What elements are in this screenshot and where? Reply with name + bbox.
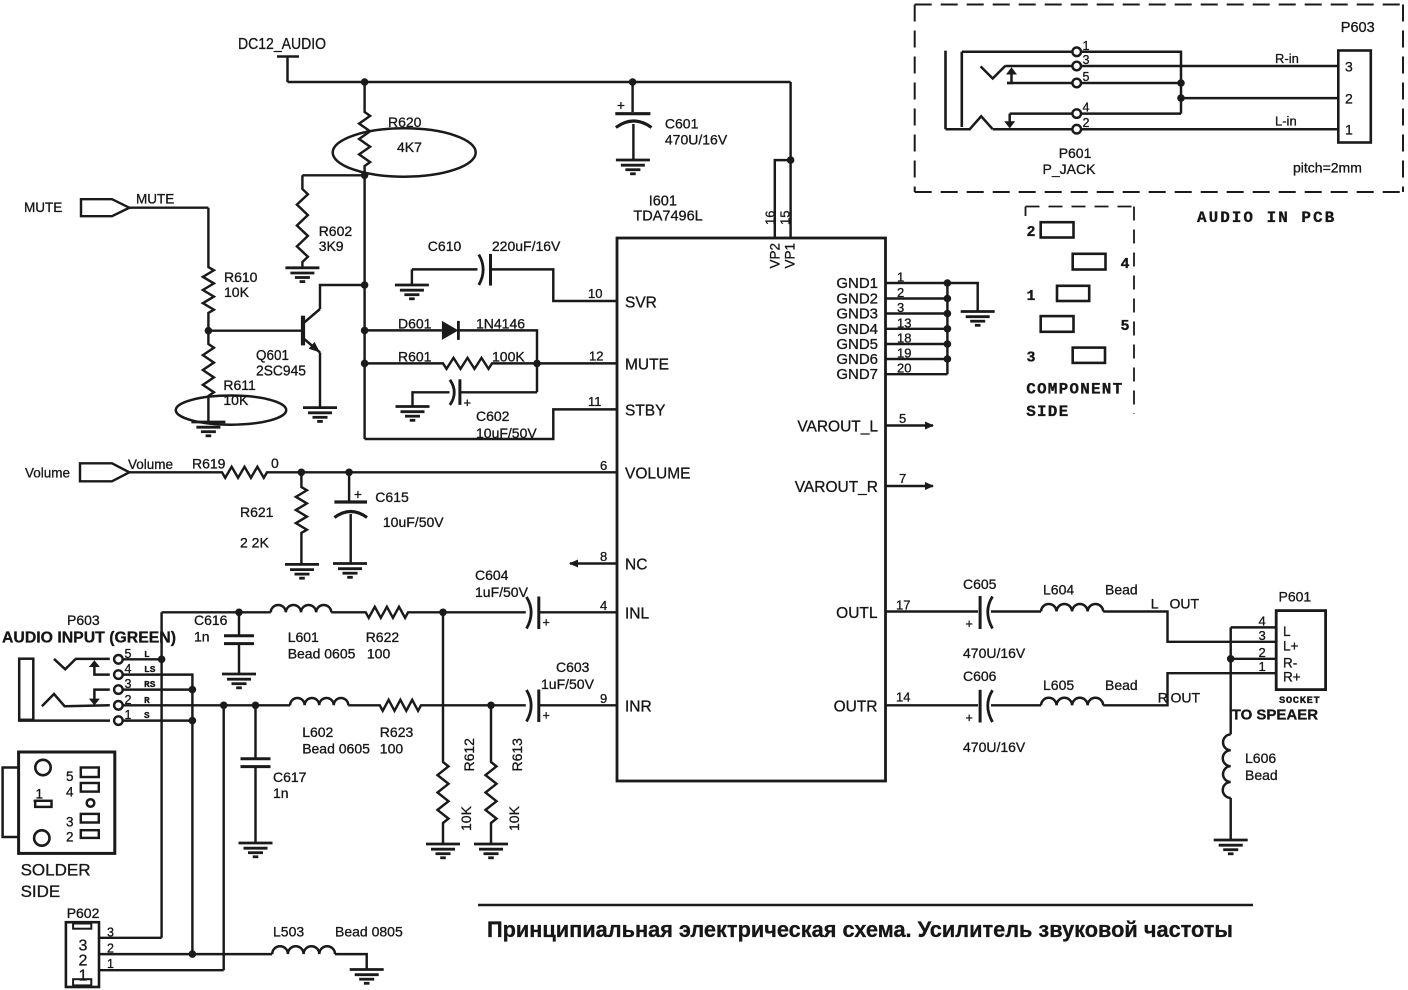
junction mute node bbox=[533, 360, 541, 368]
junction GND bus bbox=[944, 325, 952, 333]
svg-text:VP1: VP1 bbox=[783, 243, 798, 269]
wire socket pin 4 bbox=[1231, 626, 1277, 628]
svg-text:NC: NC bbox=[625, 557, 647, 574]
wire S from pin1 bbox=[123, 719, 193, 721]
wire VAROUT_R arrow bbox=[886, 482, 935, 490]
capacitor C606 bbox=[980, 690, 992, 723]
svg-text:R+: R+ bbox=[1283, 670, 1301, 685]
ground C601 bbox=[616, 160, 650, 174]
inductor L606 bbox=[1223, 734, 1231, 798]
junction GND bus bbox=[944, 355, 952, 363]
svg-text:10K: 10K bbox=[506, 805, 522, 831]
svg-text:R-in: R-in bbox=[1275, 51, 1299, 66]
junction D601 row bbox=[361, 327, 369, 335]
wire L601 gap bbox=[239, 611, 271, 613]
wire C610 left bbox=[412, 268, 478, 270]
junction R610/R611/base bbox=[205, 327, 213, 335]
wire GND4 stub bbox=[886, 328, 948, 330]
svg-text:pitch=2mm: pitch=2mm bbox=[1293, 160, 1362, 176]
ground L503 bbox=[350, 970, 384, 984]
solder-side left tab bbox=[3, 768, 19, 838]
svg-text:1uF/50V: 1uF/50V bbox=[475, 584, 529, 600]
svg-text:MUTE: MUTE bbox=[136, 192, 174, 207]
svg-text:Bead 0805: Bead 0805 bbox=[335, 924, 403, 940]
svg-text:C610: C610 bbox=[428, 238, 462, 254]
svg-text:9: 9 bbox=[600, 691, 607, 706]
P602 key bottom bbox=[73, 979, 91, 985]
inductor L605 bbox=[1041, 698, 1103, 706]
wire C605 to L604 bbox=[991, 610, 1041, 612]
ground C602 bbox=[396, 407, 430, 421]
svg-text:16: 16 bbox=[763, 211, 778, 225]
svg-text:3: 3 bbox=[66, 815, 74, 830]
svg-text:4: 4 bbox=[66, 785, 74, 800]
resistor R610 bbox=[203, 208, 214, 331]
junction speaker bus bbox=[1227, 655, 1235, 663]
svg-text:R: R bbox=[1158, 690, 1168, 706]
junction GND bus bbox=[944, 340, 952, 348]
wire INL row start bbox=[162, 611, 239, 613]
svg-text:R-: R- bbox=[1283, 655, 1297, 670]
wire P602 pin 3 bbox=[99, 937, 162, 939]
ground C610 bbox=[395, 285, 429, 299]
junction C617 bbox=[252, 702, 260, 710]
svg-text:+: + bbox=[464, 395, 472, 410]
svg-text:AUDIO INPUT (GREEN): AUDIO INPUT (GREEN) bbox=[2, 630, 176, 647]
wire mute-net vertical bbox=[363, 175, 365, 439]
svg-text:10K: 10K bbox=[224, 284, 250, 300]
wire to C604 bbox=[443, 611, 526, 613]
svg-text:VAROUT_L: VAROUT_L bbox=[797, 419, 878, 436]
ground Q601 emitter bbox=[303, 408, 337, 422]
svg-text:1n: 1n bbox=[273, 785, 289, 801]
junction P602 pin2/ground net bbox=[189, 950, 197, 958]
wire OUTR to C606 bbox=[886, 704, 979, 706]
svg-text:6: 6 bbox=[600, 458, 607, 473]
svg-text:I601: I601 bbox=[649, 194, 677, 210]
ground C616 bbox=[222, 674, 256, 688]
junction pin5/vertical bbox=[1177, 79, 1185, 87]
svg-text:Принципиальная электрическая с: Принципиальная электрическая схема. Усил… bbox=[487, 917, 1233, 942]
pin 5 circle (P603 input) bbox=[114, 655, 123, 664]
svg-text:100: 100 bbox=[367, 646, 391, 662]
svg-text:P602: P602 bbox=[67, 905, 100, 921]
svg-text:2: 2 bbox=[1345, 91, 1353, 107]
svg-text:1N4146: 1N4146 bbox=[476, 316, 525, 332]
svg-text:+: + bbox=[543, 616, 550, 630]
jack contact R bbox=[42, 694, 110, 706]
svg-text:R623: R623 bbox=[380, 724, 414, 740]
solder-side connector outline bbox=[19, 752, 115, 853]
svg-text:14: 14 bbox=[896, 690, 910, 705]
svg-text:5: 5 bbox=[66, 769, 74, 784]
svg-text:220uF/16V: 220uF/16V bbox=[492, 238, 561, 254]
wire jack sleeve S bbox=[19, 719, 110, 722]
svg-text:TO SPEAER: TO SPEAER bbox=[1232, 707, 1319, 724]
svg-text:10K: 10K bbox=[223, 392, 249, 408]
junction R613 bbox=[487, 702, 495, 710]
jack switch arrow down (pin4) bbox=[1004, 114, 1015, 129]
wire VAROUT_L arrow bbox=[886, 422, 935, 430]
junction P603 pin2 row bbox=[1177, 94, 1185, 102]
transistor Q601 bbox=[303, 309, 320, 352]
highlight ellipse around R611 value bbox=[176, 396, 286, 425]
P602 key top bbox=[73, 924, 91, 929]
junction rail/R620 bbox=[361, 78, 369, 86]
svg-text:2: 2 bbox=[1027, 224, 1036, 241]
svg-text:100: 100 bbox=[380, 741, 404, 757]
svg-text:4: 4 bbox=[600, 598, 607, 613]
svg-text:L: L bbox=[1283, 624, 1291, 639]
wire R602 top bbox=[302, 174, 364, 176]
wire OUTL to C605 bbox=[886, 610, 979, 612]
svg-text:11: 11 bbox=[588, 394, 602, 409]
wire jack pin1 row bbox=[962, 52, 1181, 114]
junction L bbox=[158, 656, 166, 664]
svg-text:4K7: 4K7 bbox=[397, 139, 422, 155]
wire base bbox=[208, 329, 301, 331]
svg-text:R622: R622 bbox=[366, 629, 400, 645]
capacitor C605 bbox=[980, 596, 992, 629]
svg-text:P603: P603 bbox=[67, 612, 100, 628]
svg-text:2: 2 bbox=[1083, 116, 1090, 130]
wire +12V rail bbox=[288, 81, 791, 83]
inductor L604 bbox=[1041, 604, 1103, 612]
wire jack pin4 row bbox=[1010, 112, 1181, 115]
svg-text:COMPONENT: COMPONENT bbox=[1026, 381, 1123, 399]
svg-text:R610: R610 bbox=[224, 269, 258, 285]
connector P601 speaker socket bbox=[1276, 611, 1325, 690]
svg-text:INL: INL bbox=[625, 606, 650, 623]
wire collector bbox=[320, 285, 365, 309]
junction GND bus bbox=[944, 279, 952, 287]
svg-text:+: + bbox=[966, 711, 973, 725]
junction S/ground bbox=[189, 717, 197, 725]
wire to C603 bbox=[491, 704, 526, 706]
connector P603 (audio-in pcb) bbox=[1338, 51, 1371, 143]
svg-text:C604: C604 bbox=[475, 567, 509, 583]
svg-text:SOLDER: SOLDER bbox=[21, 861, 91, 880]
svg-text:3: 3 bbox=[1259, 628, 1266, 643]
capacitor C616 bbox=[224, 612, 254, 674]
svg-text:Bead: Bead bbox=[1105, 582, 1138, 598]
ground R612 bbox=[426, 844, 460, 858]
dashed border AUDIO IN PCB bbox=[915, 5, 1403, 193]
svg-text:1: 1 bbox=[36, 787, 44, 802]
wire L606 to ground bbox=[1229, 798, 1231, 840]
svg-text:Q601: Q601 bbox=[256, 348, 289, 364]
svg-text:3: 3 bbox=[1027, 350, 1036, 367]
svg-text:4: 4 bbox=[1083, 101, 1090, 115]
svg-text:1: 1 bbox=[1027, 288, 1036, 305]
svg-text:1n: 1n bbox=[194, 629, 210, 645]
svg-text:P603: P603 bbox=[1341, 20, 1375, 36]
wire P602 pin 2 bbox=[99, 953, 272, 955]
wire INR pin 9 bbox=[539, 704, 617, 706]
svg-text:VOLUME: VOLUME bbox=[625, 466, 690, 483]
title underline bbox=[478, 904, 1253, 906]
wire L from pin5 bbox=[123, 658, 162, 660]
wire L OUT to socket pin 3 bbox=[1103, 612, 1276, 642]
svg-text:L: L bbox=[1151, 596, 1159, 612]
svg-text:10uF/50V: 10uF/50V bbox=[383, 514, 444, 530]
svg-text:OUTR: OUTR bbox=[834, 699, 878, 716]
svg-text:3: 3 bbox=[1083, 53, 1090, 67]
junction GND bus bbox=[944, 295, 952, 303]
svg-text:1: 1 bbox=[1259, 659, 1266, 674]
capacitor C603 bbox=[527, 690, 539, 723]
capacitor C601 bbox=[615, 82, 651, 160]
svg-text:C601: C601 bbox=[665, 116, 699, 132]
svg-text:R612: R612 bbox=[461, 738, 477, 772]
pad 1 underline bbox=[34, 800, 46, 802]
wire INR row start bbox=[123, 704, 290, 706]
svg-text:MUTE: MUTE bbox=[625, 357, 669, 374]
jack contact check (R-in) bbox=[981, 66, 1006, 79]
svg-text:10: 10 bbox=[588, 286, 602, 301]
wire GND1 stub bbox=[886, 282, 948, 284]
svg-text:P_JACK: P_JACK bbox=[1043, 161, 1097, 177]
junction R net bbox=[220, 702, 228, 710]
pin 3 circle (P603 input) bbox=[114, 685, 123, 694]
svg-text:C605: C605 bbox=[963, 576, 997, 592]
svg-text:7: 7 bbox=[899, 471, 906, 486]
svg-text:Volume: Volume bbox=[128, 457, 173, 472]
resistor R623 bbox=[348, 700, 491, 711]
junction rail/C601 bbox=[629, 78, 637, 86]
junction R612 bbox=[439, 609, 447, 617]
ground C615 bbox=[333, 564, 367, 578]
capacitor C604 bbox=[527, 597, 539, 630]
junction R621 bbox=[298, 469, 306, 477]
pad 5 rect bbox=[81, 768, 99, 778]
svg-text:+: + bbox=[617, 98, 625, 113]
svg-text:OUT: OUT bbox=[1170, 596, 1200, 612]
svg-text:P601: P601 bbox=[1279, 589, 1312, 605]
solder-side center hole bbox=[87, 799, 95, 807]
svg-text:P601: P601 bbox=[1059, 145, 1092, 161]
wire GND bus bbox=[946, 283, 948, 374]
svg-text:VAROUT_R: VAROUT_R bbox=[795, 479, 878, 496]
resistor R619 bbox=[129, 467, 617, 478]
svg-text:C606: C606 bbox=[963, 668, 997, 684]
pad 5 (component side) bbox=[1041, 316, 1074, 332]
svg-text:TDA7496L: TDA7496L bbox=[633, 209, 702, 225]
ground R611 bbox=[191, 422, 225, 436]
svg-text:L503: L503 bbox=[273, 924, 304, 940]
jack switch arrow up (pin5) bbox=[1006, 67, 1017, 83]
svg-text:10K: 10K bbox=[458, 805, 474, 831]
svg-text:2 2K: 2 2K bbox=[240, 535, 269, 551]
jack contact (R, with bump) bbox=[946, 116, 993, 129]
wire MUTE pin 12 bbox=[537, 362, 617, 364]
wire R vertical bbox=[222, 705, 224, 970]
pad 3 (component side) bbox=[1073, 348, 1105, 363]
connector tag Volume bbox=[80, 463, 129, 481]
wire C602 right bbox=[460, 391, 537, 393]
svg-text:3K9: 3K9 bbox=[319, 238, 344, 254]
connector P603 jack body bbox=[19, 659, 33, 720]
svg-text:R602: R602 bbox=[319, 223, 353, 239]
pin 1 circle (P601 jack) bbox=[1072, 48, 1081, 57]
svg-text:5: 5 bbox=[899, 411, 906, 426]
svg-text:Volume: Volume bbox=[25, 466, 70, 481]
node DC12_AUDIO stub bbox=[277, 57, 299, 83]
wire L vertical bbox=[160, 612, 162, 938]
svg-text:1: 1 bbox=[1345, 122, 1353, 138]
svg-text:GND7: GND7 bbox=[836, 366, 878, 383]
wire SVR pin 10 bbox=[491, 269, 618, 301]
svg-text:C616: C616 bbox=[194, 612, 228, 628]
svg-text:Bead 0605: Bead 0605 bbox=[302, 741, 370, 757]
resistor R613 bbox=[486, 705, 497, 843]
ground R621 bbox=[285, 564, 319, 578]
ground R602 bbox=[285, 268, 319, 282]
junction VP bbox=[787, 156, 795, 164]
junction collector bbox=[361, 281, 369, 289]
svg-text:STBY: STBY bbox=[625, 403, 665, 420]
svg-text:Bead 0605: Bead 0605 bbox=[288, 646, 356, 662]
junction R601 row bbox=[361, 360, 369, 368]
junction R620/R602 bbox=[361, 172, 369, 180]
svg-text:L+: L+ bbox=[1283, 638, 1299, 653]
svg-text:3: 3 bbox=[1345, 59, 1353, 75]
junction C616 bbox=[235, 609, 243, 617]
svg-text:470U/16V: 470U/16V bbox=[665, 132, 728, 148]
svg-text:L605: L605 bbox=[1043, 677, 1074, 693]
wire P602 pin 1 bbox=[99, 969, 224, 971]
resistor R612 bbox=[438, 612, 449, 843]
pin 4 circle (P603 input) bbox=[114, 670, 123, 679]
svg-text:4: 4 bbox=[1121, 256, 1130, 273]
wire GND7 stub bbox=[886, 373, 948, 375]
wire INL pin 4 bbox=[539, 611, 617, 613]
pin 4 circle (P601 jack) bbox=[1072, 109, 1081, 118]
svg-text:2: 2 bbox=[1259, 645, 1266, 660]
svg-text:OUT: OUT bbox=[1171, 690, 1201, 706]
svg-text:17: 17 bbox=[896, 598, 910, 613]
connector P601 jack body (audio-in) bbox=[946, 51, 962, 130]
pin 2 circle (P603 input) bbox=[114, 701, 123, 710]
resistor R602 bbox=[297, 175, 308, 267]
svg-text:DC12_AUDIO: DC12_AUDIO bbox=[238, 36, 326, 53]
wire RS from pin3 bbox=[123, 688, 193, 690]
ground R613 bbox=[474, 844, 508, 858]
solder-side hole top bbox=[35, 760, 50, 775]
wire D601 to mute node bbox=[458, 330, 537, 392]
wire L503 to ground bbox=[335, 954, 367, 969]
svg-text:MUTE: MUTE bbox=[24, 200, 62, 215]
wire VP1 pin 15 bbox=[789, 82, 791, 238]
pin 5 circle (P601 jack) bbox=[1072, 79, 1081, 88]
pad 1 (component side) bbox=[1057, 286, 1089, 301]
svg-text:R620: R620 bbox=[388, 114, 422, 130]
jack switch arrow (L/LS) bbox=[89, 660, 110, 674]
svg-text:R613: R613 bbox=[509, 738, 525, 772]
svg-text:R619: R619 bbox=[192, 456, 226, 472]
wire jack pin3 row (R-in) bbox=[1005, 65, 1338, 68]
wire to D601 bbox=[365, 329, 442, 331]
svg-text:Bead: Bead bbox=[1105, 677, 1138, 693]
resistor R620 bbox=[359, 82, 370, 175]
svg-text:470U/16V: 470U/16V bbox=[963, 645, 1026, 661]
svg-text:L601: L601 bbox=[288, 629, 319, 645]
wire to P603 pin 2 bbox=[1181, 97, 1338, 100]
svg-text:4: 4 bbox=[1259, 613, 1266, 628]
svg-text:L602: L602 bbox=[302, 724, 333, 740]
resistor R622 bbox=[331, 607, 443, 618]
svg-text:100K: 100K bbox=[492, 349, 525, 365]
pin 3 circle (P601 jack) bbox=[1072, 62, 1081, 71]
wire GND bus to ground bbox=[947, 283, 977, 311]
wire GND6 stub bbox=[886, 358, 948, 360]
svg-text:1: 1 bbox=[1083, 39, 1090, 53]
svg-text:C615: C615 bbox=[375, 489, 409, 505]
wire speaker bus bbox=[1229, 627, 1231, 734]
inductor L601 bbox=[271, 605, 332, 612]
inductor L503 bbox=[272, 946, 335, 954]
svg-text:2SC945: 2SC945 bbox=[256, 364, 306, 380]
svg-text:8: 8 bbox=[600, 549, 607, 564]
svg-text:SIDE: SIDE bbox=[21, 882, 61, 901]
wire C610 ground stem bbox=[411, 269, 413, 285]
wire emitter bbox=[319, 352, 321, 407]
pad 2 (component side) bbox=[1041, 222, 1074, 237]
svg-text:SIDE: SIDE bbox=[1026, 403, 1069, 421]
wire GND3 stub bbox=[886, 312, 948, 314]
svg-text:AUDIO IN PCB: AUDIO IN PCB bbox=[1197, 209, 1336, 227]
svg-text:+: + bbox=[354, 487, 362, 502]
svg-text:SOCKET: SOCKET bbox=[1279, 695, 1320, 707]
connector tag MUTE bbox=[81, 199, 129, 216]
pad 1 rect bbox=[35, 801, 51, 807]
pad 4 (component side) bbox=[1073, 254, 1106, 270]
op-amp / IC I601 TDA7496L body bbox=[617, 238, 886, 781]
svg-text:15: 15 bbox=[778, 211, 793, 225]
svg-text:5: 5 bbox=[1083, 70, 1090, 84]
pin 2 circle (P601 jack) bbox=[1072, 125, 1081, 134]
svg-text:L606: L606 bbox=[1245, 750, 1276, 766]
svg-text:R601: R601 bbox=[398, 349, 432, 365]
junction C615 bbox=[345, 469, 353, 477]
svg-text:0: 0 bbox=[271, 455, 279, 471]
capacitor C615 bbox=[334, 472, 367, 563]
wire VP2 pin 16 bbox=[775, 160, 791, 238]
ground GND bus bbox=[961, 312, 995, 326]
capacitor C617 bbox=[241, 705, 271, 842]
svg-text:D601: D601 bbox=[398, 316, 432, 332]
junction RS/ground bbox=[189, 686, 197, 694]
resistor R611 bbox=[203, 331, 214, 422]
resistor R621 bbox=[296, 472, 307, 564]
svg-text:R621: R621 bbox=[240, 504, 274, 520]
wire jack pin2 row (L-in) bbox=[993, 128, 1339, 131]
svg-text:5: 5 bbox=[1121, 318, 1130, 335]
svg-text:Bead: Bead bbox=[1245, 767, 1278, 783]
svg-text:+: + bbox=[966, 617, 973, 631]
pad 3 rect bbox=[81, 814, 99, 823]
pad 2 rect bbox=[81, 830, 99, 838]
diode D601 bbox=[442, 321, 459, 340]
ground L606 bbox=[1214, 840, 1248, 854]
inductor L602 bbox=[290, 698, 348, 705]
junction GND bus bbox=[944, 310, 952, 318]
highlight ellipse around R620 value bbox=[333, 128, 476, 176]
resistor R601 bbox=[365, 358, 537, 369]
svg-text:C602: C602 bbox=[476, 408, 510, 424]
svg-text:L604: L604 bbox=[1043, 582, 1074, 598]
ground C617 bbox=[239, 843, 273, 857]
